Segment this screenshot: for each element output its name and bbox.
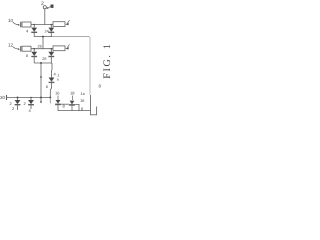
- terminal circle: [43, 6, 46, 9]
- junction bottom 3: [40, 97, 42, 99]
- label blob near terminal: [51, 5, 54, 8]
- svg-text:18: 18: [70, 90, 75, 95]
- terminal bar input 10: [20, 22, 22, 28]
- resistor R1 box: [22, 22, 31, 27]
- svg-text:2: 2: [24, 101, 27, 106]
- diode D3: [33, 49, 35, 52]
- svg-text:16: 16: [55, 90, 60, 95]
- wire row2 rail: [31, 48, 53, 50]
- arrowhead at R4: [65, 47, 68, 50]
- wire supply vertical: [44, 9, 46, 25]
- junction row2 right: [51, 48, 53, 50]
- faint stub below junction 4: [49, 98, 51, 104]
- wire right loop lower: [91, 95, 97, 115]
- wire cathode rail row2: [34, 62, 52, 64]
- terminal bar bottom: [6, 95, 8, 100]
- diode D9: [70, 101, 75, 105]
- svg-text:8: 8: [99, 83, 102, 88]
- svg-text:4: 4: [26, 29, 29, 34]
- diode D2: [50, 25, 52, 28]
- wire bottom rail: [7, 97, 51, 99]
- resistor R3 box: [22, 46, 31, 51]
- junction bottom 4: [49, 97, 51, 99]
- wire bottom mid: [61, 103, 69, 105]
- diode D1: [33, 25, 35, 28]
- wire cathode rail row1: [34, 36, 52, 38]
- svg-text:16: 16: [80, 98, 85, 103]
- svg-text:2: 2: [12, 106, 15, 111]
- wire left vertical descent: [40, 63, 42, 98]
- leader arrow input 10: [13, 22, 19, 25]
- resistor box R2: [53, 22, 65, 27]
- junction row1 right: [51, 24, 53, 26]
- wire mid vertical: [42, 37, 44, 49]
- diode D7: [30, 98, 32, 101]
- junction bottom 2: [30, 97, 32, 99]
- leader arrow input 12: [13, 47, 19, 49]
- svg-text:24: 24: [45, 30, 49, 34]
- wire right loop: [89, 37, 90, 95]
- diode D6: [17, 98, 19, 101]
- svg-text:30: 30: [0, 95, 6, 100]
- svg-text:6: 6: [26, 53, 29, 58]
- junction bottom 1: [17, 97, 19, 99]
- svg-text:4: 4: [54, 72, 57, 77]
- diode D4: [50, 49, 52, 52]
- diode D5: [49, 78, 55, 82]
- junction row1 left: [33, 24, 35, 26]
- svg-text:a: a: [57, 77, 59, 81]
- wire D5 cathode: [50, 83, 51, 98]
- wire bottom bus: [58, 110, 91, 112]
- junction small mid: [40, 76, 42, 78]
- junction dot rail2: [40, 62, 42, 64]
- svg-text:6: 6: [46, 84, 49, 89]
- arrowhead at R2: [65, 23, 68, 26]
- junction row2 left: [33, 48, 35, 50]
- leader line 16: [57, 96, 59, 101]
- stub below junction 3: [40, 98, 42, 102]
- svg-text:1a: 1a: [81, 92, 86, 96]
- svg-text:26: 26: [42, 57, 46, 61]
- resistor box R4: [53, 46, 65, 51]
- svg-text:FIG. 1: FIG. 1: [102, 42, 111, 78]
- wire corner to mid diode: [51, 63, 53, 70]
- terminal bar input 12: [20, 46, 22, 52]
- svg-text:26: 26: [38, 45, 42, 49]
- leader arrow to terminal: [48, 7, 51, 9]
- wire row1 rail: [31, 24, 53, 26]
- diode D8: [56, 100, 61, 104]
- diode D5 anode wire: [51, 70, 53, 78]
- wire right of D9: [75, 104, 79, 110]
- leader line 18: [71, 96, 73, 101]
- junction dot rail1: [42, 36, 44, 38]
- wire cathode rail row1 right segment: [52, 36, 89, 38]
